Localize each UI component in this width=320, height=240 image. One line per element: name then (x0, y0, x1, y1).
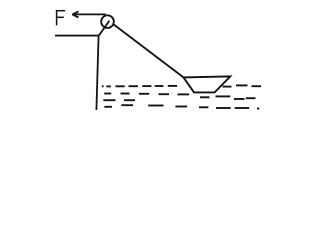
arrow (force direction, pointing left) (72, 11, 105, 17)
water dashes row 2 left (104, 93, 189, 96)
pole (96, 36, 98, 110)
boat (184, 76, 231, 92)
force label F (56, 10, 65, 26)
pulley (101, 15, 114, 28)
rope (113, 24, 183, 77)
water dashes row 2 right of boat (200, 96, 256, 99)
dock edge (55, 35, 99, 37)
water dashes row 3 (103, 99, 135, 101)
water dashes row 1 (waterline right of boat) (223, 85, 261, 86)
water dashes row 1 (waterline left) (102, 85, 177, 88)
pulley axle strut (99, 21, 110, 36)
water dashes row 4 (104, 105, 259, 108)
